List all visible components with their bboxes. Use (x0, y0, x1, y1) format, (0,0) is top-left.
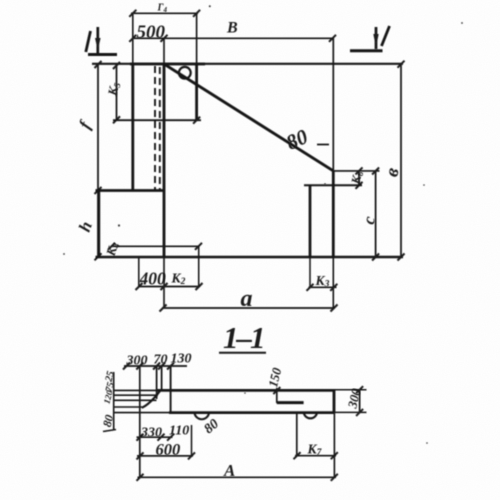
svg-text:130: 130 (171, 352, 192, 367)
svg-text:1–1: 1–1 (223, 320, 264, 355)
svg-text:300: 300 (126, 354, 148, 369)
svg-text:70: 70 (154, 353, 168, 368)
svg-text:110: 110 (169, 424, 189, 439)
svg-text:500: 500 (137, 22, 166, 43)
svg-text:400: 400 (139, 269, 167, 289)
svg-text:В: В (226, 20, 238, 37)
svg-text:а: а (241, 286, 253, 312)
svg-text:А: А (223, 461, 235, 480)
svg-text:330: 330 (140, 426, 162, 441)
svg-text:600: 600 (156, 440, 181, 459)
